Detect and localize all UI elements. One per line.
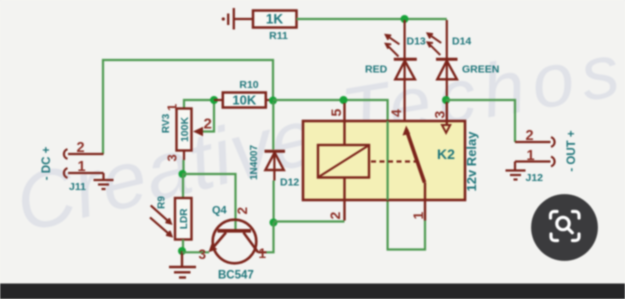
LED D14 — [428, 20, 500, 100]
relay pin stubs — [345, 102, 447, 221]
svg-text:4: 4 — [388, 109, 404, 117]
svg-text:- DC +: - DC + — [41, 146, 53, 180]
svg-text:BC547: BC547 — [218, 270, 254, 282]
svg-text:R11: R11 — [269, 30, 288, 42]
node junction LDR bottom — [178, 247, 186, 255]
wire J11 feed to R10 rail — [103, 60, 273, 154]
svg-text:RV3: RV3 — [161, 113, 172, 133]
svg-text:12v Relay: 12v Relay — [464, 131, 479, 192]
svg-text:- OUT +: - OUT + — [566, 130, 578, 171]
svg-text:K2: K2 — [437, 146, 455, 162]
svg-text:2: 2 — [526, 128, 534, 144]
wire D14 node to J12 — [446, 100, 515, 142]
svg-text:RED: RED — [365, 64, 388, 76]
svg-text:D14: D14 — [452, 36, 471, 48]
node junction D12/collector — [270, 219, 278, 227]
svg-text:2: 2 — [327, 212, 343, 220]
potentiometer RV3 — [161, 100, 214, 162]
node junction R10 right — [269, 97, 277, 105]
svg-text:1: 1 — [527, 148, 535, 164]
power flag PWR — [222, 8, 253, 30]
relay pin labels — [327, 109, 448, 220]
node junction coil feed — [340, 96, 348, 104]
ground at J12 — [506, 162, 526, 180]
transistor Q4 BC547 — [199, 205, 267, 282]
wire node to Q4 base — [183, 174, 236, 229]
svg-text:D12: D12 — [280, 177, 299, 189]
connector J12 — [515, 128, 578, 184]
svg-text:1: 1 — [259, 246, 267, 261]
svg-text:R10: R10 — [239, 79, 258, 91]
svg-text:3: 3 — [199, 247, 207, 262]
svg-text:3: 3 — [432, 111, 448, 119]
ground at LDR/emitter — [169, 251, 196, 278]
svg-text:GREEN: GREEN — [462, 64, 499, 76]
svg-text:10K: 10K — [232, 93, 256, 108]
svg-text:3: 3 — [165, 154, 180, 161]
LED D13 — [365, 20, 426, 121]
svg-text:D13: D13 — [407, 36, 426, 48]
wire emitter — [182, 251, 209, 253]
relay K2 — [303, 121, 479, 200]
svg-text:J11: J11 — [69, 181, 86, 193]
LDR R9 — [150, 174, 192, 251]
svg-text:2: 2 — [204, 116, 212, 133]
svg-text:J12: J12 — [526, 172, 544, 184]
svg-text:1N4007: 1N4007 — [249, 145, 260, 180]
node junction RV3/R10 — [210, 96, 218, 104]
resistor R10 — [214, 79, 273, 108]
svg-text:100K: 100K — [179, 117, 191, 143]
svg-text:LDR: LDR — [179, 208, 190, 229]
connector J11 — [41, 140, 104, 193]
wire node to relay pin2 — [274, 220, 345, 222]
svg-text:1: 1 — [410, 212, 426, 220]
watermark text — [7, 27, 625, 249]
resistor R11 — [253, 11, 297, 43]
svg-text:5: 5 — [328, 109, 344, 117]
wire collector to D12 node — [267, 223, 274, 253]
svg-text:R9: R9 — [157, 196, 168, 209]
node junction at D14 bottom — [442, 96, 450, 104]
wire RV3 pin3 to base node — [182, 151, 185, 175]
svg-text:1K: 1K — [266, 12, 284, 27]
svg-text:2: 2 — [77, 140, 85, 156]
svg-text:1: 1 — [165, 104, 180, 111]
svg-text:Q4: Q4 — [212, 205, 228, 217]
wire R11 to LED rail — [297, 18, 447, 20]
node junction LDR top — [179, 170, 187, 178]
node junction at D13 top — [401, 15, 409, 23]
svg-text:1: 1 — [78, 159, 86, 175]
bottom black bar — [0, 284, 625, 299]
wire R10 node to relay rail — [273, 100, 425, 250]
ground at J11 — [94, 173, 114, 189]
svg-text:2: 2 — [235, 207, 250, 215]
diode D12 — [249, 102, 299, 223]
google lens button — [531, 194, 598, 261]
